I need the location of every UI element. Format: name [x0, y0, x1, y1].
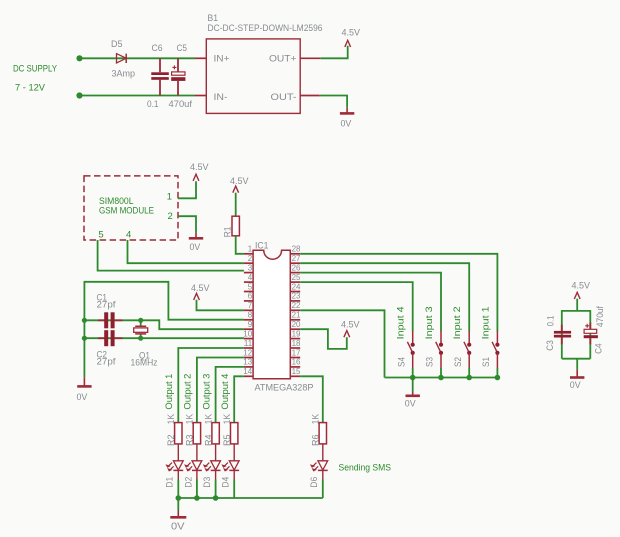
diode D5 3Amp — [111, 39, 135, 80]
crystal Q1 16MHz — [131, 320, 158, 368]
switch S2 — [453, 331, 471, 369]
junction S3-bus — [438, 375, 444, 381]
supply 4.5V top right — [342, 27, 361, 47]
svg-text:S2: S2 — [453, 357, 464, 367]
svg-text:24: 24 — [292, 282, 301, 291]
wire D1 cathode to bus — [177, 470, 179, 498]
svg-text:0V: 0V — [570, 380, 581, 391]
svg-text:27: 27 — [292, 254, 301, 263]
pin 24 stub IC1 — [290, 282, 301, 291]
supply 4.5V at IC1 pin20 — [341, 320, 360, 338]
pin 10 stub IC1 — [243, 329, 253, 338]
wire D2 cathode to bus — [196, 470, 198, 498]
svg-text:1K: 1K — [185, 413, 196, 424]
junction D3-bus — [213, 495, 219, 501]
capacitor C5 470uf (polarized) — [169, 43, 193, 110]
pin 7 stub IC1 — [244, 301, 253, 310]
LED D4 — [221, 461, 240, 488]
svg-text:16MHz: 16MHz — [131, 358, 158, 369]
node Output 4 label — [220, 374, 231, 410]
svg-text:Sending SMS: Sending SMS — [339, 462, 392, 473]
svg-text:S1: S1 — [481, 357, 492, 367]
wire DC+ to diode and IN+ — [80, 57, 196, 59]
pin 28 stub IC1 — [290, 245, 301, 254]
wire SIM pin4 to IC1 pin2 — [128, 240, 244, 263]
svg-text:5: 5 — [98, 229, 103, 240]
svg-text:28: 28 — [292, 245, 301, 254]
svg-text:23: 23 — [292, 292, 301, 301]
svg-text:1K: 1K — [166, 413, 177, 424]
LED D6 Sending SMS — [309, 461, 328, 488]
svg-text:OUT-: OUT- — [271, 92, 297, 103]
wire SIM pin5 to IC1 pin3 — [98, 240, 244, 271]
pin 18 stub IC1 — [290, 339, 301, 348]
svg-text:D1: D1 — [165, 477, 176, 488]
svg-text:1: 1 — [167, 191, 172, 202]
switch S4 — [396, 331, 414, 369]
wire C1/XTAL1 to IC1 pin9 — [84, 320, 244, 329]
svg-text:D2: D2 — [183, 477, 194, 488]
svg-text:13: 13 — [243, 358, 252, 367]
pin 11 stub IC1 — [244, 339, 253, 348]
wire 4.5V to R1 — [235, 193, 237, 217]
svg-text:25: 25 — [292, 273, 301, 282]
svg-text:4.5V: 4.5V — [190, 162, 209, 173]
wire R1 to IC1 pin1 — [236, 236, 244, 254]
node Input 1 label — [480, 306, 491, 339]
svg-text:16: 16 — [292, 358, 301, 367]
junction S1-bus — [495, 375, 501, 381]
wire switch ground bus — [385, 377, 498, 379]
svg-text:27pf: 27pf — [97, 357, 116, 368]
svg-text:3Amp: 3Amp — [112, 69, 136, 80]
pin 16 stub IC1 — [290, 358, 301, 367]
pin 4 of SIM module — [126, 229, 131, 240]
svg-text:C5: C5 — [177, 43, 188, 54]
op-amp U: IC1 ATMEGA328P body — [253, 240, 313, 393]
svg-text:Output 3: Output 3 — [201, 374, 212, 410]
wire D4 cathode to bus — [233, 470, 235, 498]
svg-text:4: 4 — [248, 273, 253, 282]
wire SIM pin1 to 4.5V — [178, 181, 196, 198]
node Output 1 label — [164, 374, 175, 410]
svg-text:C4: C4 — [594, 343, 605, 354]
wire C2/XTAL2 to IC1 pin10 — [84, 337, 244, 339]
pin 1 of SIM module — [167, 191, 172, 202]
pin 5 of SIM module — [98, 229, 103, 240]
wire C3/C4 top bar — [562, 310, 591, 312]
wire S2 to ground bus — [468, 368, 470, 378]
svg-text:D5: D5 — [111, 39, 123, 50]
wire OUT- to 0V — [320, 96, 347, 108]
pin 5 stub IC1 — [244, 282, 253, 291]
svg-text:R5: R5 — [222, 435, 233, 447]
supply 4.5V right block — [572, 281, 591, 300]
svg-text:B1: B1 — [208, 13, 219, 24]
pin 4 stub IC1 — [244, 273, 253, 282]
node DC SUPPLY label — [13, 63, 58, 93]
wire R3 to D2 — [196, 444, 198, 461]
svg-text:IN+: IN+ — [214, 54, 230, 65]
pin 12 stub IC1 — [243, 348, 253, 357]
svg-text:DC SUPPLY: DC SUPPLY — [13, 63, 58, 74]
wire R5 to D4 — [233, 444, 235, 461]
pin 17 stub IC1 — [290, 348, 301, 357]
LED D3 — [202, 461, 221, 488]
svg-text:10: 10 — [243, 329, 252, 338]
wire DC- to IN- — [80, 95, 196, 97]
wire R2 to D1 — [177, 444, 179, 461]
svg-text:4.5V: 4.5V — [191, 283, 210, 294]
wire LED ground bus — [178, 497, 322, 499]
pin 20 stub IC1 — [290, 320, 301, 329]
module B1 DC-DC-STEP-DOWN-LM2596 — [206, 13, 322, 114]
resistor R1 1K pullup — [223, 216, 240, 237]
svg-text:IN-: IN- — [214, 92, 228, 103]
svg-text:R4: R4 — [203, 435, 214, 447]
LED D2 — [183, 461, 202, 488]
capacitor C1 27pf — [97, 292, 123, 328]
svg-text:0V: 0V — [171, 520, 185, 532]
wire C4 branch right — [589, 310, 591, 359]
junction C2-Q1 — [138, 336, 143, 341]
node Input 2 label — [452, 306, 463, 339]
svg-text:C6: C6 — [152, 43, 163, 54]
pin 22 stub IC1 — [290, 301, 301, 310]
capacitor C3 0.1 — [545, 316, 571, 351]
pin 25 stub IC1 — [290, 273, 301, 282]
svg-text:0V: 0V — [341, 119, 352, 130]
svg-text:GSM MODULE: GSM MODULE — [99, 205, 154, 216]
svg-text:6: 6 — [248, 292, 253, 301]
pin IN- stub — [195, 95, 206, 97]
svg-text:17: 17 — [292, 348, 301, 357]
svg-text:20: 20 — [292, 320, 301, 329]
junction S2-bus — [466, 375, 472, 381]
pin 2 of SIM module — [168, 211, 173, 222]
svg-text:0V: 0V — [190, 242, 201, 253]
pin 14 stub IC1 — [243, 367, 253, 376]
switch S3 — [425, 331, 443, 369]
svg-text:14: 14 — [243, 367, 252, 376]
svg-text:7 - 12V: 7 - 12V — [15, 83, 46, 94]
junction rail-C2 — [82, 336, 87, 341]
supply 4.5V at IC1 pin7 — [191, 283, 210, 300]
wire D6 cathode to bus — [322, 470, 324, 498]
svg-text:Output 4: Output 4 — [220, 374, 231, 410]
svg-text:D3: D3 — [202, 477, 213, 488]
pin 27 stub IC1 — [290, 254, 301, 263]
svg-text:5: 5 — [248, 282, 253, 291]
node Input 3 label — [424, 306, 435, 339]
svg-text:1K: 1K — [203, 413, 214, 424]
wire IC1 pin13 to R4 (Output 3) — [216, 367, 244, 423]
resistor R6 1K — [311, 413, 327, 446]
svg-text:0V: 0V — [77, 392, 88, 403]
node supply terminal - — [76, 92, 82, 98]
svg-text:21: 21 — [292, 311, 301, 320]
wire IC1 pin15 to R6 — [300, 376, 323, 422]
svg-text:9: 9 — [248, 320, 253, 329]
svg-text:1: 1 — [248, 245, 253, 254]
pin 13 stub IC1 — [243, 358, 253, 367]
wire C3 branch left — [561, 310, 563, 359]
svg-text:4.5V: 4.5V — [572, 281, 591, 292]
resistor R5 1K — [222, 413, 238, 446]
ground 0V at SIM pin2 — [189, 233, 203, 253]
wire ground rail to IC1 pin8 — [84, 282, 244, 320]
node supply terminal + — [76, 55, 82, 61]
wire 4.5V to IC1 pin7 — [197, 300, 244, 311]
wire 4.5V to C3/C4 top — [576, 299, 578, 311]
pin 15 stub IC1 — [290, 367, 301, 376]
svg-text:C3: C3 — [545, 340, 556, 351]
junction C1-Q1 — [138, 318, 143, 323]
svg-text:27pf: 27pf — [97, 300, 116, 311]
junction S4-bus — [410, 375, 416, 381]
svg-text:Output 1: Output 1 — [164, 374, 175, 410]
svg-text:0.1: 0.1 — [546, 316, 557, 327]
pin 2 stub IC1 — [244, 254, 253, 263]
capacitor C6 0.1 — [147, 43, 169, 110]
svg-text:D6: D6 — [309, 477, 320, 488]
ground 0V left rail — [77, 377, 92, 403]
wire OUT+ to 4.5V — [321, 46, 348, 59]
junction D2-bus — [194, 495, 200, 501]
junction rail-C1 — [82, 318, 87, 323]
pin 8 stub IC1 — [244, 311, 253, 320]
svg-text:4.5V: 4.5V — [342, 27, 361, 38]
ground 0V switches — [405, 392, 420, 410]
wire S4 to ground bus — [412, 368, 414, 378]
wire SIM pin2 to 0V — [178, 216, 196, 232]
wire C3/C4 bottom to ground — [576, 359, 578, 370]
supply 4.5V at SIM pin1 — [190, 162, 209, 181]
svg-text:15: 15 — [292, 367, 301, 376]
pin 26 stub IC1 — [290, 263, 301, 272]
pin 21 stub IC1 — [290, 311, 301, 320]
svg-text:OUT+: OUT+ — [269, 54, 297, 65]
wire bus to ground below S4 — [412, 378, 414, 392]
svg-text:4: 4 — [126, 229, 131, 240]
wire IC1 pin14 to R5 (Output 4) — [234, 376, 244, 422]
svg-text:11: 11 — [244, 339, 253, 348]
node Sending SMS label — [339, 462, 392, 473]
pin IN+ stub — [195, 57, 206, 59]
svg-text:1K: 1K — [311, 413, 322, 424]
wire IC1 pin26 to S3 (Input 3) — [300, 273, 441, 332]
wire IC1 pin22 to switch ground bus — [300, 310, 384, 377]
svg-text:R1: R1 — [223, 226, 234, 237]
svg-text:DC-DC-STEP-DOWN-LM2596: DC-DC-STEP-DOWN-LM2596 — [208, 23, 323, 34]
pin OUT- stub — [300, 95, 320, 97]
svg-text:470uf: 470uf — [595, 306, 606, 327]
wire S3 to ground bus — [440, 368, 442, 378]
svg-text:8: 8 — [248, 311, 253, 320]
wire IC1 pin20 to 4.5V — [300, 329, 347, 349]
wire C3/C4 bottom bar — [562, 358, 591, 360]
pin 19 stub IC1 — [290, 329, 301, 338]
pin 6 stub IC1 — [244, 292, 253, 301]
wire IC1 pin12 to R3 (Output 2) — [197, 358, 244, 423]
resistor R4 1K — [203, 413, 219, 446]
svg-text:7: 7 — [248, 301, 253, 310]
svg-text:R6: R6 — [311, 435, 322, 447]
svg-text:Input 1: Input 1 — [480, 306, 491, 339]
node Output 3 label — [201, 374, 212, 410]
svg-text:R2: R2 — [166, 435, 177, 447]
wire D3 cathode to bus — [215, 470, 217, 498]
wire R4 to D3 — [215, 444, 217, 461]
pin 3 stub IC1 — [244, 263, 253, 272]
pin 1 stub IC1 — [244, 245, 253, 254]
wire bus to ground — [177, 498, 179, 511]
svg-text:22: 22 — [292, 301, 301, 310]
LED D1 — [165, 461, 184, 488]
wire S1 to ground bus — [496, 368, 498, 378]
pin OUT+ stub — [300, 57, 321, 59]
ground 0V right block — [570, 370, 585, 391]
svg-text:2: 2 — [248, 254, 253, 263]
svg-text:ATMEGA328P: ATMEGA328P — [255, 382, 314, 393]
supply 4.5V above R1 — [230, 176, 249, 193]
svg-text:4.5V: 4.5V — [341, 320, 360, 331]
svg-text:19: 19 — [292, 329, 301, 338]
svg-text:S4: S4 — [396, 357, 407, 367]
resistor R3 1K — [185, 413, 201, 446]
wire IC1 pin11 to R2 (Output 1) — [178, 348, 244, 423]
svg-text:0.1: 0.1 — [147, 99, 159, 110]
switch S1 — [481, 331, 499, 369]
svg-text:Input 2: Input 2 — [452, 306, 463, 339]
svg-text:18: 18 — [292, 339, 301, 348]
node Input 4 label — [396, 306, 407, 339]
svg-text:IC1: IC1 — [255, 240, 269, 251]
wire R6 to D6 — [322, 444, 324, 461]
capacitor C4 470uf (polarized) — [584, 306, 606, 354]
svg-text:4.5V: 4.5V — [230, 176, 249, 187]
svg-text:26: 26 — [292, 263, 301, 272]
wire IC1 pin25 to S4 (Input 4) — [300, 282, 413, 331]
pin 9 stub IC1 — [244, 320, 253, 329]
pin 23 stub IC1 — [290, 292, 301, 301]
svg-text:470uf: 470uf — [169, 99, 193, 110]
module SIM800L GSM (dashed box) — [84, 176, 178, 240]
ground 0V top right — [340, 108, 354, 130]
node Output 2 label — [183, 374, 194, 410]
svg-text:3: 3 — [248, 263, 253, 272]
ground 0V bottom — [170, 511, 186, 533]
wire IC1 pin28 to S1 (Input 1) — [300, 254, 497, 331]
svg-text:12: 12 — [243, 348, 252, 357]
capacitor C2 27pf — [97, 330, 123, 367]
svg-text:0V: 0V — [405, 398, 416, 409]
svg-text:Input 4: Input 4 — [396, 306, 407, 339]
svg-text:S3: S3 — [425, 357, 436, 367]
svg-text:Output 2: Output 2 — [183, 374, 194, 410]
resistor R2 1K — [166, 413, 182, 446]
svg-text:1K: 1K — [222, 413, 233, 424]
wire ground rail left — [83, 282, 85, 377]
junction D1-bus — [176, 495, 182, 501]
wire IC1 pin27 to S2 (Input 2) — [300, 263, 469, 331]
svg-text:Input 3: Input 3 — [424, 306, 435, 339]
svg-text:2: 2 — [168, 211, 173, 222]
svg-text:D4: D4 — [221, 477, 232, 488]
svg-text:R3: R3 — [185, 435, 196, 447]
